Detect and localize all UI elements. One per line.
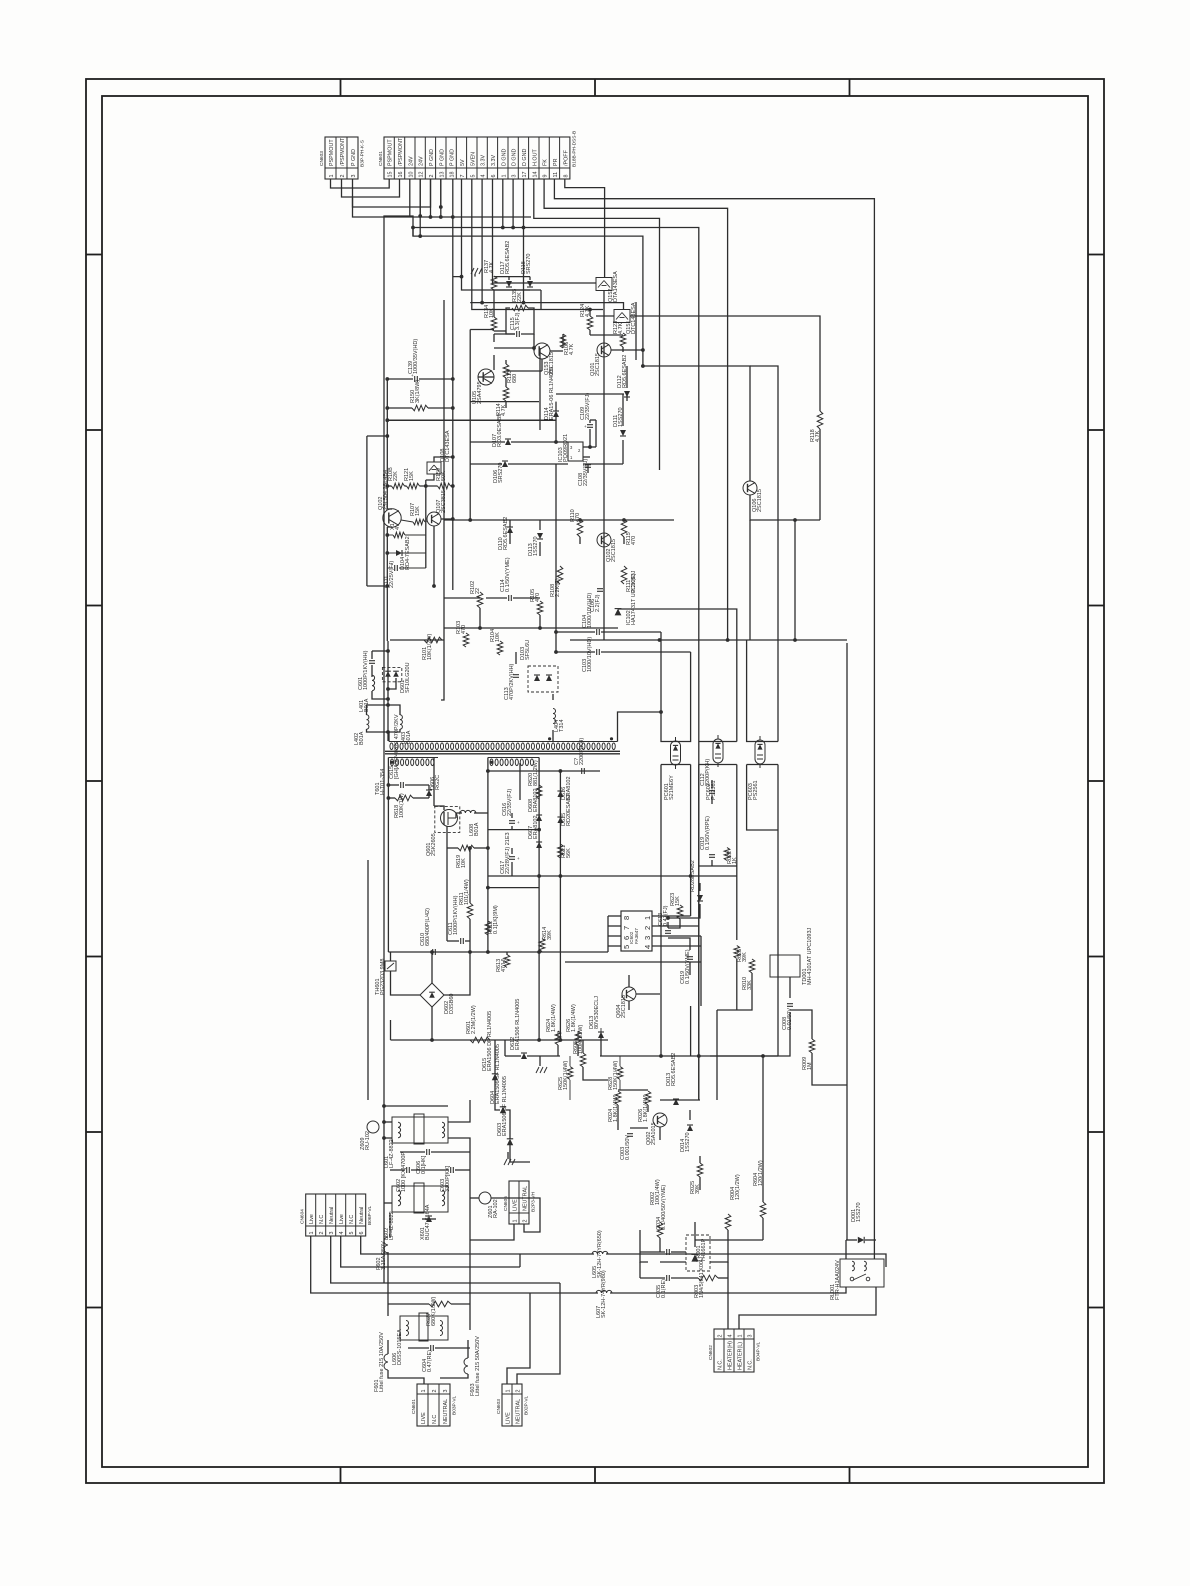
wire rail 1283/1267 stubs: [559, 1283, 561, 1293]
svg-text:4: 4: [481, 175, 487, 178]
wire x557 stub: [554, 630, 558, 634]
wire transformer terminals: [388, 732, 390, 742]
resistor R118: [817, 411, 823, 429]
wire rail x487: [487, 758, 489, 953]
svg-text:0.1/50V(YME): 0.1/50V(YME): [505, 557, 511, 592]
svg-text:LIVE: LIVE: [421, 1412, 427, 1424]
svg-text:2.2(FJ): 2.2(FJ): [595, 594, 601, 612]
wire left bus vertical: [383, 222, 385, 1283]
wire rail to r101 row: [386, 586, 388, 641]
wire 3.3V lines: [470, 303, 623, 309]
resistor R625b: [567, 1067, 573, 1080]
diode D604: [500, 1107, 506, 1113]
svg-text:470: 470: [461, 625, 467, 634]
wire left col x368: [367, 860, 369, 1100]
capacitor C613: [665, 930, 671, 932]
wire r627 row: [388, 1303, 429, 1305]
svg-text:22/35V(FJ): 22/35V(FJ): [507, 789, 513, 816]
svg-text:1: 1: [512, 1220, 518, 1223]
resistor R621: [558, 844, 564, 858]
svg-text:RD5.6ESAB2: RD5.6ESAB2: [671, 1053, 677, 1086]
resistor R605: [580, 1053, 586, 1067]
svg-text:Live: Live: [339, 1214, 345, 1224]
svg-text:P GND: P GND: [429, 149, 435, 166]
svg-text:1000/35V(HD): 1000/35V(HD): [413, 339, 419, 374]
wire net A: [635, 302, 637, 360]
connector CN601: [384, 137, 570, 179]
wire cn605 links: [470, 1224, 514, 1240]
svg-text:FTR-H1AA024V: FTR-H1AA024V: [835, 1260, 841, 1300]
fuse F601: [384, 1354, 388, 1370]
diode D107: [505, 439, 511, 445]
svg-text:881(1/2W): 881(1/2W): [533, 760, 539, 786]
svg-text:N.C: N.C: [319, 1215, 325, 1224]
svg-text:CN603: CN603: [319, 151, 325, 166]
svg-text:CN601: CN601: [378, 151, 384, 166]
diode D616: [557, 791, 563, 797]
capacitor C606: [426, 1149, 428, 1155]
ground sym top: [471, 268, 474, 274]
IC IC103: [568, 442, 583, 461]
optocoupler PC601: [671, 741, 681, 765]
wire row y887: [488, 887, 539, 889]
svg-text:[GH]A3F/40322 470P/2KV: [GH]A3F/40322 470P/2KV: [394, 714, 400, 779]
wire x736 upper: [618, 609, 737, 742]
wire d114 column: [555, 402, 557, 411]
svg-text:ERA1506 BF RL1N4005: ERA1506 BF RL1N4005: [502, 1076, 508, 1136]
svg-text:ERA1506 DF RL1N4005: ERA1506 DF RL1N4005: [487, 1011, 493, 1071]
resistor R123: [620, 333, 626, 347]
wire r604 to tr001: [695, 1239, 763, 1241]
svg-text:2: 2: [432, 1390, 438, 1393]
transformer phase dots: [548, 737, 551, 740]
wire r135/c115 loop: [506, 308, 515, 334]
resistor R159: [438, 483, 451, 489]
resistor R113: [503, 364, 509, 378]
capacitor C109: [587, 424, 593, 426]
relay RL001: [840, 1259, 884, 1287]
svg-text:15K: 15K: [675, 896, 681, 906]
transistor Q102 mosfet: [383, 509, 401, 527]
wire tr001 links: [640, 1230, 648, 1262]
wire pc603 loops: [747, 640, 778, 742]
svg-text:22/28V(FJ) 21E3: 22/28V(FJ) 21E3: [505, 832, 511, 874]
capacitor C034: [666, 1249, 668, 1255]
svg-text:RU-102: RU-102: [365, 1131, 371, 1150]
svg-text:B03P-VL: B03P-VL: [452, 1395, 458, 1415]
resistor R130: [412, 405, 428, 411]
fuse F602: [384, 1237, 388, 1253]
transformer T601 secondary winding A: [388, 757, 438, 759]
transformer T601 primary winding: [389, 741, 618, 743]
svg-text:15K: 15K: [415, 506, 421, 516]
mosfet Q601: [435, 806, 460, 832]
diode D603: [507, 1139, 513, 1145]
resistor R626: [575, 1031, 581, 1045]
transformer T601 secondary winding B: [488, 757, 539, 759]
svg-text:/POFF: /POFF: [563, 149, 569, 166]
svg-text:B18B-PH-DSS-B: B18B-PH-DSS-B: [571, 131, 577, 167]
resistor R619: [458, 845, 474, 851]
svg-text:B02P-VL: B02P-VL: [524, 1395, 530, 1415]
transistor Q002: [653, 1113, 667, 1127]
diode D615: [557, 817, 563, 823]
wire row y962: [565, 961, 701, 963]
wire q002 cluster: [618, 1089, 648, 1091]
svg-text:ERA1506 RL1N4005: ERA1506 RL1N4005: [515, 999, 521, 1050]
svg-text:10K: 10K: [461, 858, 467, 868]
capacitor C602: [406, 1167, 408, 1173]
svg-text:CN604: CN604: [300, 1209, 306, 1224]
capacitor C108: [585, 464, 591, 466]
svg-text:RG2C: RG2C: [435, 775, 441, 790]
svg-text:B3P-PH-K-S: B3P-PH-K-S: [360, 140, 366, 167]
wire row 640 mid: [570, 639, 604, 641]
svg-text:H.OUT: H.OUT: [532, 149, 538, 166]
svg-text:Neutral: Neutral: [329, 1207, 335, 1224]
connector CN603: [325, 137, 358, 179]
wire x540 stub: [539, 348, 541, 430]
capacitor C106: [597, 588, 603, 590]
svg-text:12: 12: [419, 172, 425, 178]
svg-text:N.C: N.C: [432, 1415, 438, 1424]
svg-text:1000P/1KV(HH): 1000P/1KV(HH): [453, 895, 459, 935]
svg-text:RD5.6ESAB2: RD5.6ESAB2: [505, 241, 511, 274]
wire P GND net left: [353, 179, 431, 207]
capacitor C601: [369, 660, 375, 662]
optocoupler PC602: [713, 739, 723, 763]
svg-text:80VS30ECLJ: 80VS30ECLJ: [594, 996, 600, 1029]
svg-text:4: 4: [395, 527, 401, 530]
svg-text:100K(1W): 100K(1W): [399, 793, 405, 818]
wire cluster bottom row: [470, 401, 539, 403]
resistor R102: [477, 592, 483, 608]
svg-text:15K: 15K: [409, 471, 415, 481]
svg-text:1SS270: 1SS270: [533, 536, 539, 556]
svg-text:3: 3: [329, 1232, 335, 1235]
wire r137 bottoms: [494, 289, 530, 291]
svg-text:0.1/400/50V(YME): 0.1/400/50V(YME): [661, 1185, 667, 1230]
svg-text:1000/10V(HD): 1000/10V(HD): [587, 637, 593, 672]
svg-text:B2P3-VH: B2P3-VH: [531, 1191, 537, 1212]
svg-text:SF5L6U: SF5L6U: [525, 640, 531, 660]
resistor R106: [560, 334, 566, 348]
svg-text:680/400P(L/42): 680/400P(L/42): [425, 908, 431, 946]
resistor R623: [677, 905, 683, 919]
svg-text:150K(1/4W): 150K(1/4W): [613, 1060, 619, 1090]
capacitor C008: [787, 1003, 793, 1005]
diode D103 box: [528, 666, 558, 692]
svg-text:5: 5: [622, 945, 631, 949]
svg-text:SF10LG20U: SF10LG20U: [405, 662, 411, 693]
svg-text:4: 4: [339, 1232, 345, 1235]
wire r003 row: [640, 1277, 665, 1279]
svg-text:22K: 22K: [517, 292, 523, 302]
svg-text:B01A: B01A: [359, 731, 365, 745]
svg-text:LF-4Z-8822: LF-4Z-8822: [389, 1139, 395, 1168]
svg-text:1N4/5(941 K00U: 1N4/5(941 K00U: [699, 1257, 705, 1298]
resistor R010: [749, 959, 755, 973]
resistor R121: [407, 483, 420, 489]
transistor Q153: [534, 343, 550, 359]
resistor R624: [555, 1031, 561, 1045]
svg-text:3.3V: 3.3V: [491, 155, 497, 166]
svg-text:11: 11: [553, 172, 559, 178]
svg-text:0.001/50V: 0.001/50V: [625, 1135, 631, 1160]
svg-text:1: 1: [505, 1390, 511, 1393]
wire bridge links: [431, 952, 433, 983]
svg-text:3.15A/250V: 3.15A/250V: [381, 1241, 387, 1270]
transistor Q106 right: [743, 481, 757, 495]
svg-text:SRS270: SRS270: [526, 254, 532, 275]
svg-text:9: 9: [543, 175, 549, 178]
capacitor C139: [414, 376, 416, 382]
wire x795 vertical: [795, 519, 820, 521]
wire c019 row: [698, 861, 700, 863]
svg-text:4.7K: 4.7K: [618, 322, 624, 334]
svg-text:NEUTRAL: NEUTRAL: [515, 1399, 521, 1424]
wire ic602 right links: [699, 883, 701, 891]
capacitor C111: [394, 565, 396, 571]
svg-text:SRS270: SRS270: [498, 463, 504, 484]
wire cn603b links: [507, 1293, 530, 1384]
transistor Q604: [622, 987, 636, 1001]
svg-text:1SS270: 1SS270: [685, 1132, 691, 1152]
capacitor C617: [509, 856, 515, 858]
varistor Z609: [367, 1121, 379, 1133]
diode D118: [527, 281, 533, 287]
svg-text:+: +: [513, 327, 516, 332]
wire d103 links: [552, 694, 554, 700]
svg-text:22: 22: [475, 588, 481, 594]
diode D606: [426, 790, 432, 796]
svg-text:1: 1: [643, 916, 652, 920]
wire rail 1254 right: [606, 1254, 886, 1267]
inductor L401: [372, 675, 375, 691]
svg-text:47(H): 47(H): [501, 958, 507, 972]
svg-text:N.C.: N.C.: [717, 1359, 723, 1370]
wire P GND bus line: [353, 198, 532, 217]
svg-text:5: 5: [470, 175, 476, 178]
connector CN603 bottom: [502, 1384, 522, 1426]
wire ic602 pins: [608, 915, 621, 917]
IC IC602 box: [621, 911, 652, 951]
resistor R625: [734, 946, 740, 959]
wire filter column: [469, 1160, 471, 1240]
svg-text:4: 4: [643, 945, 652, 949]
wire ic103 rows: [556, 393, 624, 395]
resistor R628: [617, 1067, 623, 1080]
fuse F603: [464, 1358, 468, 1374]
svg-text:BUC47-6164A: BUC47-6164A: [425, 1204, 431, 1240]
svg-text:1000/10V(HD): 1000/10V(HD): [587, 593, 593, 628]
svg-text:1: 1: [309, 1232, 315, 1235]
wire mosfet source: [446, 826, 448, 848]
svg-text:D GND: D GND: [522, 149, 528, 166]
svg-text:1: 1: [421, 1390, 427, 1393]
wire row y830: [488, 829, 539, 831]
svg-text:0.1[1K](9M): 0.1[1K](9M): [493, 905, 499, 934]
resistor R111: [621, 566, 627, 584]
capacitor C604: [430, 1345, 432, 1351]
svg-text:2: 2: [522, 1220, 528, 1223]
svg-text:SK-12H-74YR(980): SK-12H-74YR(980): [601, 1270, 607, 1318]
resistor R627: [429, 1301, 451, 1307]
svg-text:10K: 10K: [495, 632, 501, 642]
wire r025: [699, 1156, 701, 1163]
resistor R003: [698, 1275, 718, 1281]
capacitor C610: [432, 949, 434, 955]
svg-text:HEATER(L): HEATER(L): [737, 1342, 743, 1370]
svg-text:2SC1815: 2SC1815: [621, 995, 627, 1018]
svg-text:/PSPMONT: /PSPMONT: [340, 137, 346, 166]
wire 24V bus line: [413, 228, 643, 367]
svg-text:0.1(RE): 0.1(RE): [661, 1279, 667, 1298]
svg-text:6: 6: [491, 175, 497, 178]
resistor R103: [463, 633, 469, 647]
svg-text:3.3(FJ): 3.3(FJ): [515, 312, 521, 330]
wire row y520: [444, 519, 674, 521]
resistor R612: [485, 921, 491, 935]
resistor R104: [497, 641, 503, 655]
resistor R108: [557, 566, 563, 584]
svg-text:3: 3: [643, 936, 652, 940]
svg-text:LIVE: LIVE: [505, 1412, 511, 1424]
diode D615: [492, 1074, 498, 1080]
wire td001 links: [717, 973, 752, 1010]
svg-text:14: 14: [532, 172, 538, 178]
wire pc601 loops: [661, 632, 691, 742]
wire rail x539: [538, 758, 540, 1041]
wire rail x560: [559, 771, 561, 1040]
svg-text:N.C: N.C: [349, 1215, 355, 1224]
resistor R101: [424, 637, 442, 643]
diode D612: [521, 1053, 527, 1059]
svg-text:B06P-VL: B06P-VL: [367, 1205, 373, 1225]
svg-text:3.3V: 3.3V: [481, 155, 487, 166]
varistor X601: [426, 1216, 432, 1222]
resistor R024: [615, 1091, 621, 1105]
wire cn604 drops: [311, 1236, 598, 1293]
svg-text:7: 7: [460, 175, 466, 178]
wire r625 links: [569, 1056, 571, 1066]
svg-text:T314: T314: [559, 719, 565, 732]
resistor R611: [467, 903, 473, 919]
svg-text:2SC1815: 2SC1815: [611, 539, 617, 562]
svg-text:LIVE: LIVE: [512, 1199, 518, 1211]
svg-text:S21ME6Y: S21ME6Y: [669, 775, 675, 800]
svg-text:2: 2: [340, 175, 346, 178]
inductor L403: [400, 715, 402, 729]
svg-text:1SS270: 1SS270: [856, 1202, 862, 1222]
wire mosfet drain: [433, 758, 435, 807]
transistor Q107: [427, 512, 441, 526]
wire diode chain links: [494, 1040, 496, 1074]
svg-text:Neutral: Neutral: [359, 1207, 365, 1224]
svg-text:3K(1/8W): 3K(1/8W): [415, 380, 421, 403]
svg-text:P GND: P GND: [439, 149, 445, 166]
wire right verticals lower: [846, 643, 848, 1240]
svg-text:PR: PR: [553, 158, 559, 166]
capacitor C115: [516, 331, 518, 337]
svg-text:RA-102: RA-102: [493, 1199, 499, 1218]
svg-text:PSPMOUT: PSPMOUT: [329, 139, 335, 166]
bridge rectifier D602: [420, 983, 444, 1007]
inductor L608: [460, 810, 476, 813]
wire P GND rail down: [440, 179, 442, 207]
svg-text:D GND: D GND: [501, 149, 507, 166]
svg-text:PQ09RD21: PQ09RD21: [563, 434, 569, 462]
capacitor C619: [687, 956, 693, 958]
svg-text:FK: FK: [543, 159, 549, 166]
transistor Q151 box: [614, 310, 630, 323]
wire q106: [643, 366, 750, 481]
svg-text:+: +: [390, 562, 393, 567]
wire fuse links: [387, 1340, 389, 1354]
wire 5V line: [453, 179, 462, 277]
wire c139 row: [387, 378, 413, 380]
diode D613b: [598, 1032, 604, 1038]
svg-text:22K: 22K: [393, 471, 399, 481]
svg-text:2SC1815: 2SC1815: [595, 353, 601, 376]
transistor Q101: [597, 343, 611, 357]
wire q-cluster: [589, 310, 591, 317]
varistor Z601: [479, 1192, 491, 1204]
svg-text:Littel fuse 215 10A/250V: Littel fuse 215 10A/250V: [379, 1332, 385, 1392]
wire D GND bus line: [414, 228, 699, 1101]
wire relay feeders: [845, 1240, 847, 1259]
svg-text:2SL504 2SL4B4: 2SL504 2SL4B4: [383, 470, 389, 510]
diode D112: [624, 391, 630, 397]
svg-text:17: 17: [522, 172, 528, 178]
wire gnd stub mid: [504, 1159, 507, 1165]
inductor L404: [553, 709, 556, 724]
svg-text:2.2M(1/2W): 2.2M(1/2W): [471, 1005, 477, 1034]
wire pin18 deep drop: [452, 179, 454, 590]
svg-text:1: 1: [501, 175, 507, 178]
svg-text:8: 8: [622, 916, 631, 920]
capacitor C620: [581, 768, 583, 774]
thyristor TR001: [686, 1235, 710, 1271]
svg-text:1: 1: [329, 175, 335, 178]
resistor R022: [724, 848, 730, 861]
svg-text:2: 2: [717, 1335, 723, 1338]
svg-text:470: 470: [631, 536, 637, 545]
diode D106: [502, 461, 508, 467]
resistor R135: [512, 305, 528, 311]
resistor R026: [645, 1091, 651, 1105]
svg-text:D3SB60: D3SB60: [449, 994, 455, 1015]
wire mid-left rows: [470, 441, 505, 443]
diode D601 snubber box: [382, 667, 401, 681]
optocoupler PC603: [755, 740, 765, 764]
wire row y1040: [391, 1039, 609, 1041]
diode D013: [673, 1099, 679, 1105]
svg-text:RD5.6ESAB2: RD5.6ESAB2: [503, 517, 509, 550]
resistor R601: [470, 1037, 490, 1043]
svg-text:1: 1: [737, 1335, 743, 1338]
svg-text:B01A: B01A: [474, 822, 480, 836]
svg-text:HEATER(H): HEATER(H): [727, 1341, 733, 1370]
svg-text:4: 4: [727, 1335, 733, 1338]
line filter L601: [392, 1117, 448, 1143]
svg-text:ERA15-06 RL1N4005: ERA15-06 RL1N4005: [549, 367, 555, 420]
diode D613 zener: [697, 895, 703, 901]
resistor R105: [537, 601, 543, 615]
svg-text:ERA8102: ERA8102: [533, 788, 539, 812]
capacitor C035: [666, 1275, 668, 1281]
diode D608: [536, 815, 542, 821]
